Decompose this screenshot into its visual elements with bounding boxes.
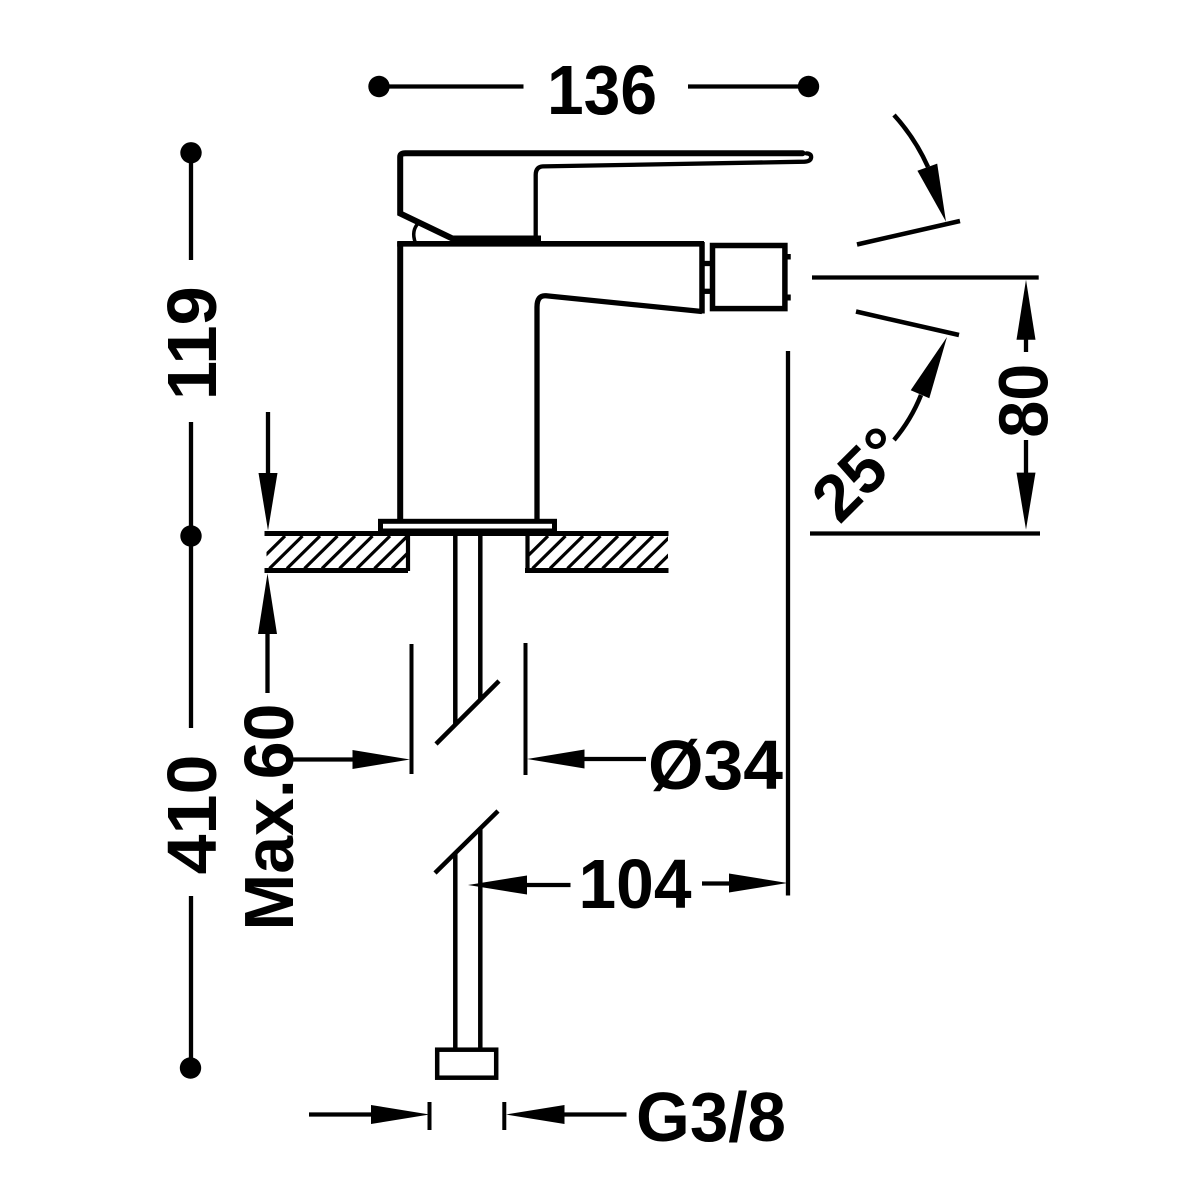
dimension Max.60 upper extension line xyxy=(266,412,270,477)
body top edge xyxy=(397,241,704,247)
dimension G3/8 left arrowhead xyxy=(371,1105,430,1124)
handle swing arc arrow top xyxy=(894,115,928,167)
dimension 80 upper arrowhead xyxy=(1017,280,1036,340)
dimension G3/8 right arrowhead xyxy=(506,1105,565,1124)
dimension Max.60 lower line xyxy=(265,630,269,693)
dimension 410 upper line xyxy=(189,536,193,728)
dimension 104 left leader line xyxy=(523,883,571,887)
hatch left right edge xyxy=(406,534,410,571)
25 degree arc arrow xyxy=(894,395,921,440)
dimension 104 right arrowhead xyxy=(729,874,788,893)
svg-text:410: 410 xyxy=(153,755,231,875)
spout tip right edge xyxy=(699,242,705,314)
dimension O34 right leader line xyxy=(581,757,646,761)
svg-text:G3/8: G3/8 xyxy=(636,1078,786,1156)
cartridge top bar xyxy=(452,236,541,243)
supply pipe upper right line xyxy=(478,534,483,700)
dimension 410 bottom dot xyxy=(180,1057,201,1078)
handle tilt upper position line xyxy=(857,221,960,245)
dimension G3/8 right tick xyxy=(502,1102,506,1130)
hatch left bottom line xyxy=(265,568,409,573)
dimension 104 right leader line xyxy=(702,881,732,885)
dimension 136 right line xyxy=(688,84,809,88)
aerator connect tab lower xyxy=(700,289,713,294)
hatch right left edge xyxy=(525,534,529,571)
lever handle outline xyxy=(400,153,802,240)
25 degree arrowhead xyxy=(911,337,947,398)
dimension O34 right extension line xyxy=(524,643,528,775)
lever pivot arc xyxy=(414,223,419,243)
pipe break upper diagonal xyxy=(436,681,499,744)
dimension 80 lower stub line xyxy=(1024,440,1028,476)
countertop surface line xyxy=(265,531,669,536)
mounting flange xyxy=(381,521,555,531)
dimension O34 left arrowhead xyxy=(353,750,411,769)
dimension Max.60 upper arrowhead xyxy=(259,473,278,531)
handle tilt lower position line xyxy=(856,312,959,336)
hatch right bottom line xyxy=(525,568,669,573)
dimension O34 left extension line xyxy=(410,644,414,774)
dimension 80 top reference line xyxy=(812,275,1039,279)
svg-text:104: 104 xyxy=(579,845,692,923)
supply pipe lower right line xyxy=(478,828,483,1048)
svg-text:Ø34: Ø34 xyxy=(648,726,783,804)
hose end connector xyxy=(437,1050,496,1078)
countertop hatch right block xyxy=(515,534,688,571)
dimension 80 bottom reference line xyxy=(810,531,1040,535)
supply pipe upper left line xyxy=(453,534,458,725)
dimension 136 left line xyxy=(379,84,524,88)
dimension 80 upper stub line xyxy=(1024,336,1028,352)
dimension 80 lower arrowhead xyxy=(1017,473,1036,530)
pipe break lower diagonal xyxy=(435,811,498,873)
svg-text:80: 80 xyxy=(985,364,1063,438)
dimension G3/8 right leader line xyxy=(561,1112,627,1116)
dimension 410 lower line xyxy=(189,896,193,1068)
aerator connect tab upper xyxy=(700,261,713,266)
supply pipe lower left line xyxy=(453,853,458,1048)
dimension 136 right dot xyxy=(798,76,819,97)
body left edge xyxy=(397,242,403,521)
dimension 136 left dot xyxy=(368,76,389,97)
aerator outlet lip lower nub xyxy=(786,295,791,301)
aerator body xyxy=(713,246,785,309)
dimension 119 top dot xyxy=(180,142,201,163)
dimension 104 left arrowhead xyxy=(468,876,527,895)
dimension 119 upper line xyxy=(189,153,193,260)
svg-text:136: 136 xyxy=(547,51,657,129)
dimension O34 right arrowhead xyxy=(527,750,585,769)
dimension 119 lower line xyxy=(189,422,193,536)
dimension Max.60 lower arrowhead xyxy=(258,574,277,635)
dimension G3/8 left leader line xyxy=(309,1112,373,1116)
dimension O34 left leader line xyxy=(293,757,356,761)
aerator outlet lip upper nub xyxy=(786,254,791,260)
outlet vertical reference line xyxy=(786,351,790,896)
lever handle underside xyxy=(536,153,811,238)
svg-text:119: 119 xyxy=(153,286,231,400)
body right edge below spout xyxy=(537,296,702,521)
svg-text:Max.60: Max.60 xyxy=(230,704,308,931)
dimension 119/410 shared dot xyxy=(180,525,201,546)
dimension G3/8 left tick xyxy=(428,1102,432,1130)
countertop hatch left block xyxy=(252,534,443,571)
handle swing arrowhead top xyxy=(917,164,946,222)
